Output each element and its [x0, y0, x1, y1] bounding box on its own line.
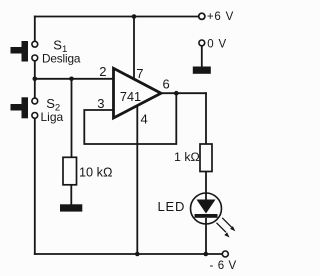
- node junction LED/-V: [204, 252, 209, 257]
- svg-text:741: 741: [120, 90, 141, 104]
- LED D1: [191, 193, 222, 224]
- wire R2 to LED: [205, 172, 207, 200]
- pushbutton S2: [11, 97, 38, 118]
- terminal 0V: [199, 40, 205, 46]
- wire output to R2 1k: [205, 93, 207, 144]
- svg-text:- 6 V: - 6 V: [210, 260, 237, 272]
- wire bottom -V rail: [35, 253, 222, 255]
- node junction pin4/-V: [135, 252, 140, 257]
- svg-text:+6 V: +6 V: [207, 11, 234, 23]
- wire output pin6: [161, 92, 206, 94]
- terminal -6V: [222, 251, 228, 257]
- wire pin3 feedback loop: [84, 93, 176, 144]
- wire pin7 to +V rail: [133, 17, 135, 80]
- node junction S1/S2/pin2: [33, 77, 38, 82]
- svg-text:Desliga: Desliga: [42, 51, 81, 65]
- svg-text:0 V: 0 V: [207, 38, 227, 50]
- terminal +6V: [199, 13, 205, 19]
- wire pin2 input: [35, 78, 114, 80]
- node junction R1 tap: [69, 77, 74, 82]
- svg-text:4: 4: [141, 112, 148, 127]
- svg-text:10 kΩ: 10 kΩ: [79, 165, 112, 179]
- node output pin6: [174, 91, 179, 96]
- wire S2 bottom to bottom rail: [34, 118, 36, 254]
- resistor R2 1k: [200, 144, 212, 172]
- wire junction to R1 10k: [71, 79, 73, 158]
- pushbutton S1: [11, 41, 38, 62]
- ground R1: [60, 204, 82, 211]
- svg-text:2: 2: [99, 64, 106, 79]
- wire junction to S2 top: [34, 79, 36, 98]
- wire 0V terminal to ground: [201, 46, 203, 67]
- LED light arrows: [217, 218, 236, 238]
- svg-text:3: 3: [97, 96, 104, 111]
- svg-text:1 kΩ: 1 kΩ: [174, 150, 200, 164]
- svg-text:Liga: Liga: [41, 110, 64, 124]
- wire R1 to ground: [70, 185, 72, 205]
- op-amp U1 741: [114, 68, 162, 118]
- wire pin4 to -V rail: [136, 104, 138, 254]
- wire LED to -V rail: [205, 218, 207, 254]
- wire left vertical to S1: [34, 17, 36, 42]
- resistor R1 10k: [63, 157, 77, 185]
- ground 0V: [193, 67, 211, 74]
- wire top +V rail: [35, 16, 199, 18]
- svg-text:6: 6: [163, 77, 170, 92]
- wire S1 bottom to junction: [34, 61, 36, 79]
- svg-text:7: 7: [136, 66, 143, 81]
- svg-text:LED: LED: [158, 199, 186, 214]
- node junction pin7/+V: [132, 14, 137, 19]
